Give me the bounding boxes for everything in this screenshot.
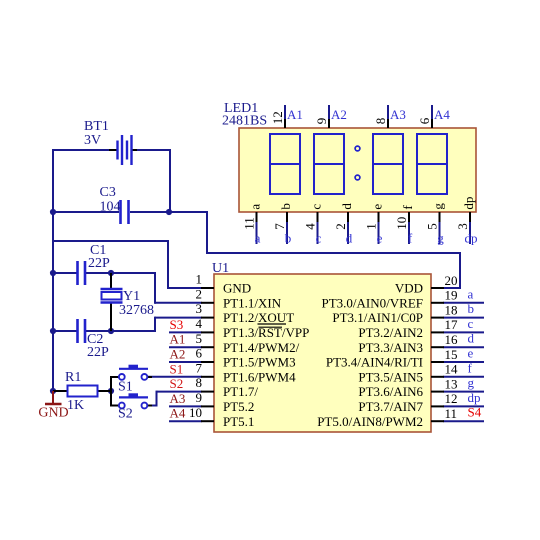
- svg-text:GND: GND: [223, 281, 251, 296]
- svg-text:g: g: [468, 375, 475, 390]
- svg-text:2: 2: [196, 286, 203, 301]
- svg-text:d: d: [468, 331, 475, 346]
- junction at 111,331: [108, 328, 114, 334]
- svg-text:GND: GND: [38, 406, 68, 421]
- junction at 53,273: [50, 270, 56, 276]
- wire: net c stub from pin 17: [443, 331, 484, 333]
- capacitor C1: [78, 261, 86, 285]
- svg-text:16: 16: [445, 332, 459, 347]
- svg-text:BT1: BT1: [84, 119, 109, 134]
- svg-text:b: b: [285, 231, 292, 246]
- LED pin 9 anode A2: [314, 105, 329, 128]
- LED display LED1 body: [239, 128, 476, 212]
- pin 4 RST overline: [259, 326, 283, 328]
- wire: XIN vertical: [154, 272, 156, 304]
- LED pin 6 anode A4: [417, 105, 432, 128]
- svg-text:1K: 1K: [67, 398, 84, 413]
- pin 18 PT3.1/AIN1/C0P: [332, 302, 457, 325]
- svg-text:32768: 32768: [119, 303, 154, 318]
- svg-text:1: 1: [196, 272, 203, 287]
- wire: net S3 stub to pin 4: [169, 331, 202, 333]
- svg-text:A1: A1: [170, 332, 186, 347]
- svg-text:8: 8: [373, 118, 388, 125]
- svg-text:g: g: [431, 203, 446, 210]
- svg-text:5: 5: [196, 331, 203, 346]
- svg-text:A3: A3: [390, 107, 406, 122]
- svg-text:104: 104: [100, 200, 121, 215]
- svg-text:c: c: [309, 204, 324, 210]
- pin 7 PT1.6/PWM4: [196, 360, 297, 384]
- svg-text:2: 2: [333, 223, 348, 230]
- wire: battery right to corner: [136, 149, 171, 151]
- wire: GND branch vertical to pin1: [167, 240, 169, 289]
- svg-text:PT1.1/XIN: PT1.1/XIN: [223, 295, 282, 310]
- svg-text:A4: A4: [170, 406, 186, 421]
- svg-text:e: e: [377, 231, 383, 246]
- svg-text:PT5.1: PT5.1: [223, 414, 254, 429]
- svg-text:S3: S3: [170, 317, 184, 332]
- svg-text:A2: A2: [331, 107, 347, 122]
- LED digit 1: [270, 134, 300, 194]
- LED pin 2 segment d: [333, 203, 354, 244]
- LED pin 8 anode A3: [373, 105, 388, 128]
- pin 9 PT5.2: [196, 390, 255, 414]
- svg-text:12: 12: [445, 391, 458, 406]
- LED pin 12 anode A1: [270, 105, 285, 128]
- svg-text:11: 11: [445, 406, 458, 421]
- battery BT1: [109, 135, 137, 165]
- wire: top rail to battery left: [52, 149, 110, 151]
- svg-text:6: 6: [196, 346, 203, 361]
- svg-text:PT1.5/PWM3: PT1.5/PWM3: [223, 355, 296, 370]
- svg-text:PT3.5/AIN5: PT3.5/AIN5: [358, 369, 423, 384]
- svg-text:d: d: [339, 203, 354, 210]
- wire: VDD net into pin 20: [443, 287, 461, 289]
- wire: left GND rail vertical: [52, 149, 54, 392]
- wire: XOUT vertical: [154, 317, 156, 332]
- svg-text:PT1.6/PWM4: PT1.6/PWM4: [223, 369, 296, 384]
- wire: VDD net long horizontal: [206, 252, 461, 254]
- svg-text:1: 1: [364, 223, 379, 230]
- svg-text:PT1.2/XOUT: PT1.2/XOUT: [223, 310, 294, 325]
- svg-text:e: e: [468, 346, 474, 361]
- svg-text:6: 6: [417, 117, 432, 124]
- wire: net A1 stub to pin 5: [169, 346, 202, 348]
- svg-text:b: b: [468, 301, 475, 316]
- svg-text:c: c: [316, 231, 322, 246]
- wire: VDD net C3 node to corner: [169, 211, 208, 213]
- svg-text:7: 7: [196, 360, 203, 375]
- ground: [38, 391, 68, 421]
- svg-text:PT3.7/AIN7: PT3.7/AIN7: [358, 399, 423, 414]
- LED digit 3: [373, 134, 403, 194]
- wire: net a stub from pin 19: [443, 302, 484, 304]
- junction at 53,391: [50, 388, 56, 394]
- svg-text:19: 19: [445, 288, 458, 303]
- wire: S2 into pin 8: [157, 391, 203, 393]
- wire: net b stub from pin 18: [443, 317, 484, 319]
- wire: C2 row right to XOUT corner: [85, 330, 156, 332]
- pin 3 PT1.2/XOUT: [196, 301, 295, 325]
- svg-text:20: 20: [445, 273, 458, 288]
- wire: C3 row right segment: [130, 211, 170, 213]
- svg-text:PT5.0/AIN8/PWM2: PT5.0/AIN8/PWM2: [317, 414, 423, 429]
- svg-text:U1: U1: [212, 261, 229, 276]
- svg-text:PT1.4/PWM2/: PT1.4/PWM2/: [223, 340, 300, 355]
- junction at 53,212: [50, 209, 56, 215]
- svg-text:a: a: [468, 286, 474, 301]
- capacitor C3: [121, 200, 129, 224]
- svg-text:17: 17: [445, 317, 459, 332]
- LED colon: [355, 146, 360, 151]
- svg-text:f: f: [408, 231, 413, 246]
- svg-text:PT5.2: PT5.2: [223, 399, 254, 414]
- svg-text:A2: A2: [170, 347, 186, 362]
- wire: net g stub from pin 13: [443, 391, 484, 393]
- pin 16 PT3.3/AIN3: [358, 332, 458, 355]
- svg-text:3V: 3V: [84, 133, 101, 148]
- svg-text:a: a: [248, 204, 263, 210]
- wire: net dp stub from pin 12: [443, 405, 484, 407]
- pin 3 XOUT underline: [258, 323, 287, 325]
- svg-text:PT3.3/AIN3: PT3.3/AIN3: [358, 340, 423, 355]
- wire: XIN into pin 2: [155, 302, 202, 304]
- svg-text:22P: 22P: [87, 345, 109, 360]
- svg-text:3: 3: [196, 301, 203, 316]
- pin 10 PT5.1: [189, 405, 254, 429]
- svg-text:c: c: [468, 316, 474, 331]
- svg-text:4: 4: [303, 223, 318, 230]
- svg-text:dp: dp: [468, 390, 481, 405]
- svg-text:PT3.6/AIN6: PT3.6/AIN6: [358, 384, 423, 399]
- junction at 111,391: [108, 388, 114, 394]
- LED pin 5 segment g: [425, 203, 446, 244]
- svg-text:9: 9: [196, 390, 203, 405]
- wire: VDD net down to pin 20: [459, 252, 461, 289]
- LED pin 7 segment b: [272, 203, 293, 244]
- svg-text:A1: A1: [287, 107, 303, 122]
- svg-text:2481BS: 2481BS: [222, 114, 267, 129]
- pin 14 PT3.5/AIN5: [358, 362, 458, 385]
- svg-text:13: 13: [445, 376, 458, 391]
- svg-text:PT3.4/AIN4/RI/TI: PT3.4/AIN4/RI/TI: [326, 355, 423, 370]
- pin 15 PT3.4/AIN4/RI/TI: [326, 347, 458, 370]
- svg-text:Y1: Y1: [123, 289, 140, 304]
- wire: C1 row right to XIN corner: [85, 272, 156, 274]
- svg-text:e: e: [370, 204, 385, 210]
- switch S1: [111, 365, 152, 380]
- LED digit 4: [417, 134, 447, 194]
- svg-text:A3: A3: [170, 391, 186, 406]
- svg-text:S1: S1: [170, 361, 184, 376]
- svg-text:S2: S2: [118, 407, 133, 422]
- wire: C2 row left: [53, 330, 77, 332]
- pin 20 VDD: [395, 273, 458, 296]
- svg-text:VDD: VDD: [395, 281, 423, 296]
- LED pin 10 segment f: [394, 205, 415, 244]
- svg-text:S1: S1: [118, 380, 133, 395]
- op-amp U1 body: [214, 274, 431, 432]
- wire: battery corner down to C3 node: [169, 149, 171, 213]
- wire: C1 row left: [53, 272, 77, 274]
- svg-text:9: 9: [314, 118, 329, 125]
- pin 12 PT3.7/AIN7: [358, 391, 457, 414]
- LED pin 3 segment dp: [455, 197, 476, 244]
- wire: GND branch into pin 1: [168, 287, 202, 289]
- svg-text:10: 10: [189, 405, 202, 420]
- pin 4 PT1.3/RST/VPP: [196, 316, 310, 340]
- wire: S2 riser: [156, 391, 158, 407]
- svg-text:4: 4: [196, 316, 203, 331]
- svg-text:10: 10: [394, 217, 409, 230]
- svg-text:11: 11: [242, 217, 257, 230]
- LED digit 2: [314, 134, 344, 194]
- svg-text:f: f: [468, 360, 473, 375]
- wire: net A4 stub to pin 10: [169, 420, 202, 422]
- wire: net S4 stub from pin 11: [443, 420, 484, 422]
- svg-text:3: 3: [455, 223, 470, 230]
- switch S2: [111, 393, 152, 408]
- svg-text:f: f: [400, 205, 415, 210]
- junction at 111,273: [108, 270, 114, 276]
- svg-text:5: 5: [425, 223, 440, 230]
- svg-text:PT3.1/AIN1/C0P: PT3.1/AIN1/C0P: [332, 310, 423, 325]
- pin 11 PT5.0/AIN8/PWM2: [317, 406, 457, 429]
- wire: XOUT into pin 3: [155, 317, 202, 319]
- wire: S1 switch to pin 7: [148, 376, 202, 378]
- pin 13 PT3.6/AIN6: [358, 376, 457, 399]
- LED pin 11 segment a: [242, 204, 263, 244]
- svg-text:R1: R1: [65, 370, 81, 385]
- crystal Y1: [101, 273, 123, 331]
- wire: net A2 stub to pin 6: [169, 361, 202, 363]
- pin 19 PT3.0/AIN0/VREF: [322, 288, 458, 311]
- pin 1 GND: [196, 272, 252, 296]
- junction at 169,212: [166, 209, 172, 215]
- svg-text:C3: C3: [100, 185, 116, 200]
- svg-text:22P: 22P: [88, 256, 110, 271]
- svg-text:7: 7: [272, 223, 287, 230]
- svg-text:12: 12: [270, 111, 285, 124]
- svg-text:PT1.7/: PT1.7/: [223, 384, 258, 399]
- wire: switch common vertical: [110, 376, 112, 407]
- svg-text:a: a: [255, 231, 261, 246]
- wire: net d stub from pin 16: [443, 346, 484, 348]
- wire: net A3 stub to pin 9: [169, 405, 202, 407]
- pin 5 PT1.4/PWM2/: [196, 331, 300, 355]
- resistor R1: [53, 386, 111, 397]
- svg-text:d: d: [346, 231, 353, 246]
- junction at 53,331: [50, 328, 56, 334]
- pin 8 PT1.7/: [196, 375, 259, 399]
- svg-text:15: 15: [445, 347, 458, 362]
- wire: net f stub from pin 14: [443, 376, 484, 378]
- wire: GND branch horizontal: [53, 240, 169, 242]
- svg-text:PT3.0/AIN0/VREF: PT3.0/AIN0/VREF: [322, 295, 423, 310]
- svg-text:8: 8: [196, 375, 203, 390]
- svg-text:PT3.2/AIN2: PT3.2/AIN2: [358, 325, 423, 340]
- svg-text:A4: A4: [434, 107, 450, 122]
- pin 2 PT1.1/XIN: [196, 286, 282, 310]
- svg-text:b: b: [278, 203, 293, 210]
- wire: C3 row left segment: [53, 211, 119, 213]
- LED pin 4 segment c: [303, 204, 324, 244]
- svg-text:S4: S4: [468, 405, 482, 420]
- svg-text:dp: dp: [465, 231, 478, 246]
- capacitor C2: [78, 319, 86, 343]
- pin 17 PT3.2/AIN2: [358, 317, 458, 340]
- wire: VDD net vertical drop: [206, 211, 208, 254]
- svg-text:S2: S2: [170, 376, 184, 391]
- wire: S2 switch right lead: [148, 405, 158, 407]
- pin 6 PT1.5/PWM3: [196, 346, 296, 370]
- wire: net e stub from pin 15: [443, 361, 484, 363]
- LED pin 1 segment e: [364, 204, 385, 244]
- svg-text:dp: dp: [461, 197, 476, 210]
- svg-text:g: g: [437, 231, 444, 246]
- svg-text:14: 14: [445, 362, 459, 377]
- svg-text:18: 18: [445, 302, 458, 317]
